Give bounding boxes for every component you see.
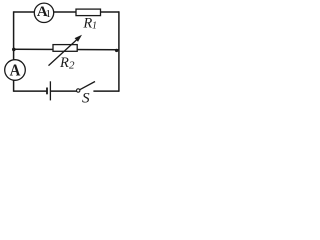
node junction right (middle branch to right wire) bbox=[115, 49, 118, 52]
node junction left (middle branch to left wire) bbox=[12, 48, 16, 52]
background bbox=[0, 0, 124, 104]
switch S bbox=[77, 82, 96, 107]
svg-text:1: 1 bbox=[46, 8, 52, 20]
wire top (node from A1 through R1) bbox=[14, 11, 119, 13]
svg-text:2: 2 bbox=[69, 60, 75, 72]
svg-text:S: S bbox=[82, 89, 90, 104]
wire switch to bottom right bbox=[93, 90, 119, 92]
svg-text:1: 1 bbox=[92, 21, 97, 32]
svg-text:R: R bbox=[59, 55, 69, 71]
resistor R1 bbox=[76, 9, 101, 32]
svg-text:A: A bbox=[10, 62, 21, 80]
wire right vertical bbox=[118, 11, 120, 92]
rheostat R2 bbox=[49, 35, 83, 72]
wire battery to switch bbox=[50, 90, 77, 92]
battery cell (short negative plate) bbox=[46, 88, 48, 95]
ammeter A1 bbox=[34, 3, 53, 22]
wire bottom left (battery negative lead) bbox=[14, 90, 47, 92]
wire middle branch (R2 branch) bbox=[14, 48, 119, 51]
svg-text:R: R bbox=[82, 16, 92, 32]
ammeter A bbox=[5, 60, 26, 81]
wire left vertical bbox=[13, 11, 15, 92]
battery cell (tall positive plate) bbox=[49, 81, 51, 100]
